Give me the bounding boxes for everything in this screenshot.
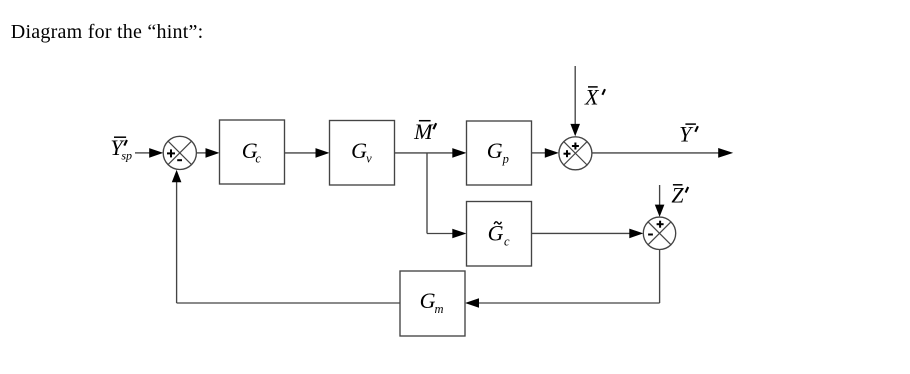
summing junction 3	[643, 217, 675, 249]
wire Gp to summer 2 with arrowhead	[532, 148, 559, 158]
wire branch from node M down to Gc-tilde with arrowhead	[427, 153, 467, 238]
wire Gc-tilde to summer 3 with arrowhead	[532, 229, 644, 239]
block Gp	[467, 121, 532, 185]
svg-text:Diagram for the “hint”:: Diagram for the “hint”:	[11, 21, 204, 43]
wire Ysp to summer 1 with arrowhead	[135, 148, 163, 158]
block Gm	[400, 271, 465, 336]
svg-text:G: G	[420, 288, 436, 313]
summer 1 minus sign	[177, 159, 182, 161]
wire summer 1 to Gc with arrowhead	[196, 148, 219, 158]
label Ysp (setpoint input)	[110, 135, 132, 163]
summer 2 plus sign top	[572, 143, 579, 150]
block Gc	[220, 120, 285, 184]
svg-text:sp: sp	[121, 149, 132, 163]
svg-text:G: G	[351, 138, 367, 163]
wire Gc to Gv with arrowhead	[285, 148, 330, 158]
svg-text:m: m	[435, 302, 444, 316]
summer 3 plus sign top	[657, 221, 664, 228]
wire output Y' with arrowhead	[592, 148, 733, 158]
label X' (disturbance)	[584, 85, 605, 110]
wire Gv to Gp with arrowhead	[395, 148, 467, 158]
svg-text:G: G	[488, 221, 504, 246]
wire feedback Gm to summer 1 with arrowhead	[172, 170, 400, 303]
label Y' (output)	[679, 121, 698, 146]
wire summer 3 down and left to Gm with arrowhead	[465, 250, 660, 308]
svg-text:c: c	[255, 151, 261, 165]
svg-text:M: M	[413, 119, 434, 144]
svg-text:Z: Z	[671, 183, 684, 208]
svg-text:v: v	[366, 151, 372, 165]
block Gc-tilde	[467, 202, 532, 267]
svg-text:X: X	[584, 85, 600, 110]
label M' (node M)	[413, 119, 436, 144]
label Z' (disturbance)	[671, 183, 688, 208]
svg-text:c: c	[504, 235, 510, 249]
summing junction 2	[559, 137, 592, 170]
svg-text:p: p	[502, 152, 509, 166]
wire Z' into summer 3 with arrowhead	[655, 185, 665, 217]
summer 1 plus sign	[167, 149, 175, 157]
block Gv	[330, 121, 395, 186]
svg-text:Y: Y	[679, 121, 694, 146]
summer 3 minus sign left	[648, 234, 653, 236]
svg-text:G: G	[487, 138, 503, 163]
summer 2 plus sign left	[564, 150, 571, 157]
summing junction 1	[163, 136, 196, 169]
wire X' into summer 2 with arrowhead	[570, 66, 580, 136]
